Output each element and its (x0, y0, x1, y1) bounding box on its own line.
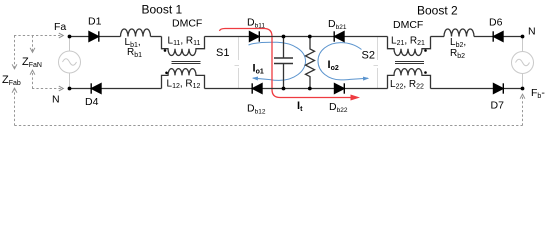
svg-text:DMCF: DMCF (172, 18, 202, 30)
svg-text:Fa: Fa (54, 21, 66, 33)
svg-text:S1: S1 (216, 47, 229, 59)
svg-text:D7: D7 (491, 100, 505, 112)
svg-text:D1: D1 (88, 16, 102, 28)
svg-text:Boost 1: Boost 1 (142, 2, 183, 16)
svg-text:D6: D6 (489, 17, 503, 29)
svg-text:D4: D4 (85, 96, 99, 108)
svg-text:DMCF: DMCF (393, 19, 423, 31)
svg-text:N: N (52, 94, 60, 106)
svg-text:S2: S2 (362, 50, 375, 62)
svg-text:Boost 2: Boost 2 (417, 3, 458, 17)
svg-text:N: N (528, 26, 536, 38)
